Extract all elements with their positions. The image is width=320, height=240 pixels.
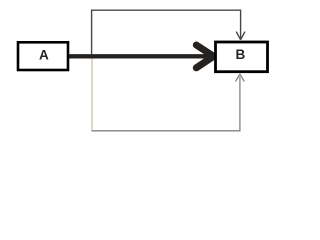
wire: top feedback connector (dark gray, from thick arrow up and over to B top): [92, 10, 245, 54]
arrowhead into B bottom: [236, 74, 245, 82]
thick arrow from A to B: [69, 45, 214, 68]
svg-text:B: B: [236, 47, 246, 62]
wire: bottom feedback connector (gray, from beige line right and up into B bottom): [91, 74, 244, 131]
box B: [216, 42, 268, 72]
box A: [18, 42, 68, 70]
arrowhead into B top: [236, 32, 245, 40]
svg-text:A: A: [39, 48, 49, 63]
wire: beige vertical segment (from thick arrow down to bottom connector): [91, 59, 93, 131]
